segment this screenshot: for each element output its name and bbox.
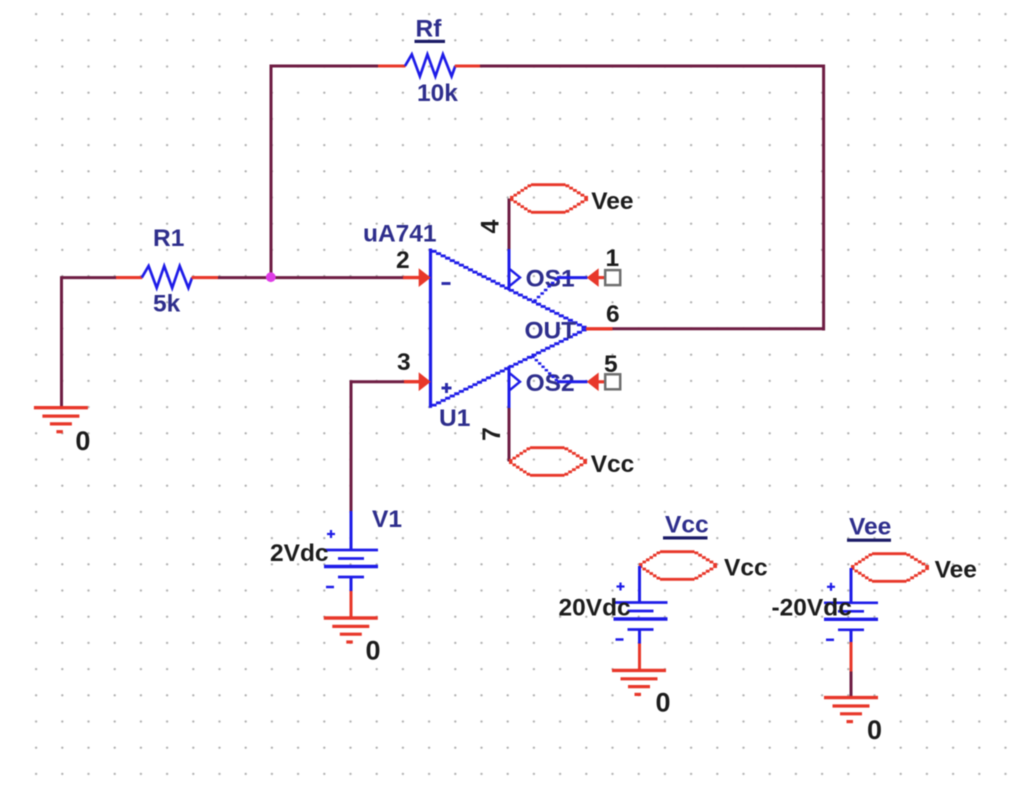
svg-text:5: 5 [604, 351, 618, 378]
pin number 7 [478, 427, 506, 441]
wire: Vcc source ground stub [638, 644, 641, 671]
net label Vee [591, 188, 633, 215]
resistor R1 lead right [192, 276, 218, 279]
wire: output horizontal [612, 327, 825, 330]
pin number 6 [606, 301, 620, 328]
svg-text:OUT: OUT [525, 317, 577, 344]
power symbol Vee (pin 4) [510, 185, 588, 213]
op-amp minus sign [442, 282, 451, 285]
OS2 internal diagonal [531, 357, 558, 380]
label U1 [439, 405, 470, 432]
pin number 5 [604, 351, 618, 378]
label OUT [525, 317, 577, 344]
svg-text:U1: U1 [439, 405, 470, 432]
value 10k [417, 80, 458, 107]
wire: R1 to pin 2 [218, 276, 404, 279]
svg-text:uA741: uA741 [363, 221, 437, 248]
pin number 3 [397, 349, 411, 376]
wire: feedback right vertical [822, 65, 825, 331]
label R1 [153, 225, 184, 252]
wire: feedback left vertical [270, 65, 273, 278]
svg-text:6: 6 [606, 301, 620, 328]
wire: Vee source ground stub [850, 642, 853, 672]
svg-text:Vee: Vee [591, 188, 633, 215]
svg-text:4: 4 [477, 219, 505, 233]
svg-text:3: 3 [397, 349, 411, 376]
svg-text:10k: 10k [417, 80, 458, 107]
ground 0 (input) [34, 408, 88, 432]
svg-text:Vee: Vee [849, 514, 891, 541]
label OS2 [526, 370, 575, 397]
wire: Vcc source top pin [638, 566, 641, 603]
resistor Rf body [405, 54, 455, 76]
label Rf [415, 16, 446, 44]
svg-text:2Vdc: 2Vdc [270, 540, 329, 567]
label OS1 [526, 266, 575, 293]
label uA741 [363, 221, 437, 248]
pin 2 stub [403, 268, 431, 287]
svg-text:5k: 5k [153, 291, 181, 318]
resistor Rf lead right [455, 64, 480, 67]
pin 7 blue segment [508, 366, 511, 408]
wire: Vee source bottom pin [850, 630, 853, 643]
wire: Vcc source bottom pin [638, 630, 641, 645]
source V1 battery [324, 530, 378, 587]
value -20Vdc [772, 595, 852, 622]
wire: feedback top-right segment [480, 65, 826, 68]
OS1 stub blue [557, 276, 588, 279]
ground 0 (below Vee source) [824, 698, 878, 722]
value 20Vdc [559, 595, 631, 622]
resistor R1 body [142, 266, 192, 288]
svg-text:-20Vdc: -20Vdc [772, 595, 852, 622]
wire: input vertical to ground [60, 276, 63, 406]
svg-text:1: 1 [606, 245, 620, 272]
pin 5 terminal square [605, 374, 620, 389]
OS1 arrow [587, 268, 606, 287]
wire: pin 3 horizontal [351, 380, 405, 383]
wire: pin 7 to Vcc bubble [508, 407, 511, 462]
svg-text:Rf: Rf [416, 16, 443, 43]
op-amp plus sign [442, 383, 452, 393]
op-amp U1 triangle left edge [429, 249, 432, 408]
wire: feedback top-left segment [271, 65, 379, 68]
wire: V1 bottom pin [350, 577, 353, 592]
ground label 0 (input) [75, 426, 90, 456]
svg-text:0: 0 [75, 426, 90, 456]
pin number 1 [606, 245, 620, 272]
pin 3 stub [404, 372, 431, 391]
source V2 battery [614, 583, 668, 640]
wire: V3 ground segment [850, 670, 853, 698]
source V3 battery [824, 583, 878, 640]
OS1 internal diagonal [533, 279, 558, 300]
net label Vcc [591, 451, 635, 478]
net label Vcc (source) [724, 555, 768, 582]
OS1 chevron [510, 269, 521, 286]
label V1 [372, 506, 402, 533]
net label Vee (source) [935, 557, 977, 584]
ground label 0 (Vee) [867, 715, 882, 745]
svg-text:2: 2 [396, 247, 410, 274]
svg-text:0: 0 [656, 688, 671, 718]
OS2 chevron [510, 373, 521, 390]
ground 0 (below V1) [324, 618, 378, 642]
ground label 0 (V1) [366, 636, 381, 666]
wire: Vee source top pin [850, 568, 853, 603]
wire: pin 3 vertical to V1 [350, 380, 353, 511]
power symbol Vcc (pin 7) [509, 448, 587, 476]
label Vee (source ref) [847, 514, 891, 542]
wire: V1 to ground stub [350, 591, 353, 618]
svg-text:R1: R1 [153, 225, 184, 252]
wire: Vee bubble to pin 4 [508, 199, 511, 251]
OS2 arrow [587, 373, 606, 392]
svg-text:7: 7 [478, 427, 506, 441]
OS2 stub blue [557, 380, 588, 383]
svg-text:Vcc: Vcc [724, 555, 768, 582]
svg-text:0: 0 [867, 715, 882, 745]
svg-text:0: 0 [366, 636, 381, 666]
svg-text:20Vdc: 20Vdc [559, 595, 631, 622]
junction node (R1/Rf/pin2) [266, 272, 276, 282]
pin 4 blue segment [508, 249, 511, 291]
ground label 0 (Vcc) [656, 688, 671, 718]
svg-text:Vee: Vee [935, 557, 977, 584]
wire: input left segment [62, 276, 117, 279]
pin number 2 [396, 247, 410, 274]
ground 0 (below Vcc source) [612, 670, 666, 694]
resistor R1 lead left [116, 276, 142, 279]
pin 1 terminal square [605, 270, 620, 285]
power symbol Vcc (source) [639, 552, 717, 580]
pin 6 OUT stub [586, 327, 613, 330]
op-amp U1 triangle bottom slant [432, 330, 587, 405]
svg-text:Vcc: Vcc [665, 512, 709, 539]
pin number 4 [477, 219, 505, 233]
wire: V1 top pin [350, 511, 353, 550]
power symbol Vee (source) [851, 554, 929, 582]
label Vcc (source ref) [663, 512, 709, 540]
svg-text:V1: V1 [372, 506, 402, 533]
svg-text:Vcc: Vcc [591, 451, 635, 478]
op-amp U1 triangle top slant [432, 251, 587, 327]
value 5k [153, 291, 181, 318]
value 2Vdc [270, 540, 329, 567]
resistor Rf lead left [378, 64, 406, 67]
